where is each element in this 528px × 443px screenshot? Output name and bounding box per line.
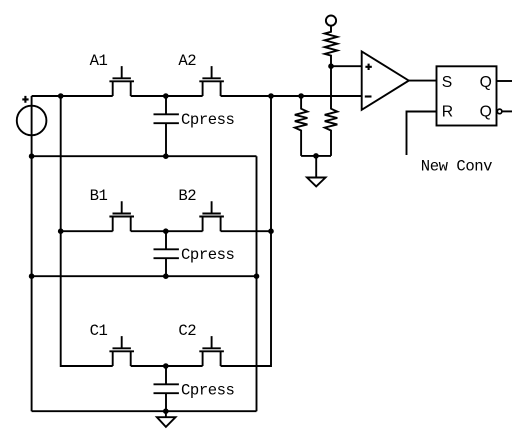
junction node source / row A bottom wire: [29, 153, 35, 159]
svg-text:Cpress: Cpress: [181, 381, 235, 399]
voltage source V1 vertical line: [31, 96, 33, 411]
junction node cap A bottom plate: [163, 153, 169, 159]
capacitor Cpress row A: [154, 96, 179, 156]
junction node source / row B bottom wire: [29, 273, 35, 279]
junction node line B / row A: [268, 93, 274, 99]
svg-text:S: S: [442, 74, 452, 91]
wire row A middle segment: [131, 95, 203, 97]
wire row B left segment: [61, 230, 113, 232]
junction node cap A top plate: [163, 93, 169, 99]
transistor A2: [199, 66, 224, 96]
svg-text:B2: B2: [178, 187, 196, 205]
wire row B bottom-plate horizontal: [32, 275, 257, 277]
junction node cap C top plate: [163, 363, 169, 369]
wire row A left segment: [32, 95, 113, 97]
flip-flop Qbar inversion bubble: [497, 109, 502, 114]
svg-text:Q: Q: [480, 74, 492, 91]
svg-text:New Conv: New Conv: [421, 158, 492, 176]
voltage source V1 plus polarity mark: [22, 96, 28, 103]
junction node line A / row B bottom wire: [254, 273, 260, 279]
resistor R2 from row A wire to ground join: [295, 96, 308, 156]
transistor B1: [109, 201, 134, 231]
wire plus node to comparator plus input: [331, 65, 362, 67]
svg-text:R: R: [442, 103, 453, 120]
op-amp comparator U1 triangle: [362, 51, 409, 109]
capacitor Cpress row B: [154, 231, 179, 276]
wire vertical line 2 feeding rows B and C: [61, 96, 113, 366]
wire row B right segment: [221, 230, 271, 232]
junction node R2 top / row A: [298, 93, 304, 99]
wire flip-flop Qbar output: [503, 110, 513, 112]
junction node line2 / row B: [58, 228, 64, 234]
svg-text:Cpress: Cpress: [181, 111, 235, 129]
wire row C right segment and vertical line B up to row A: [221, 96, 271, 366]
op-amp comparator plus input mark: [365, 64, 371, 70]
ground symbol at bottom capacitor C: [157, 411, 176, 427]
voltage source V1 circle: [17, 106, 47, 136]
op-amp comparator minus input mark: [365, 95, 372, 97]
wire flip-flop R input New Conv: [407, 112, 437, 156]
svg-text:C1: C1: [90, 322, 108, 340]
resistor R3 from plus node to ground join: [325, 66, 338, 156]
wire comparator output to flip-flop S input: [409, 80, 437, 82]
svg-text:A1: A1: [90, 52, 108, 70]
svg-text:C2: C2: [178, 322, 196, 340]
junction node cap B top plate: [163, 228, 169, 234]
transistor C2: [199, 336, 224, 366]
transistor A1: [109, 66, 134, 96]
terminal circle reference input: [326, 16, 336, 26]
wire resistor bottoms join: [301, 155, 331, 157]
ground symbol below resistors: [307, 156, 326, 187]
wire flip-flop Q output: [497, 80, 513, 82]
wire bottom ground-net horizontal: [32, 410, 257, 412]
svg-text:Q: Q: [480, 103, 492, 120]
svg-text:A2: A2: [178, 52, 196, 70]
flip-flop U2 box: [437, 66, 497, 125]
wire row B middle segment: [131, 230, 203, 232]
resistor R1 from terminal to plus node: [325, 26, 338, 66]
junction node line B / row B: [268, 228, 274, 234]
junction node resistor join / ground: [313, 153, 319, 159]
svg-text:B1: B1: [90, 187, 108, 205]
junction node cap B bottom plate: [163, 273, 169, 279]
wire row A right segment to comparator minus input: [221, 95, 362, 97]
wire row C middle segment: [131, 365, 203, 367]
wire vertical line A (bottom-plate net right): [256, 156, 258, 411]
junction node line2 / row A: [58, 93, 64, 99]
wire row A bottom-plate horizontal: [32, 155, 257, 157]
transistor C1: [109, 336, 134, 366]
junction node plus reference divider: [328, 63, 334, 69]
capacitor Cpress row C: [154, 366, 179, 411]
junction node cap C bottom plate / ground: [163, 408, 169, 414]
transistor B2: [199, 201, 224, 231]
svg-text:Cpress: Cpress: [181, 246, 235, 264]
